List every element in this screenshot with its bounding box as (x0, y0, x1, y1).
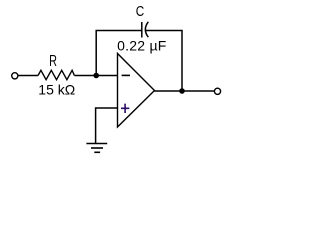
svg-text:15 kΩ: 15 kΩ (38, 82, 75, 98)
svg-text:R: R (49, 52, 57, 70)
svg-text:0.22 µF: 0.22 µF (117, 37, 167, 53)
svg-text:C: C (136, 2, 145, 19)
